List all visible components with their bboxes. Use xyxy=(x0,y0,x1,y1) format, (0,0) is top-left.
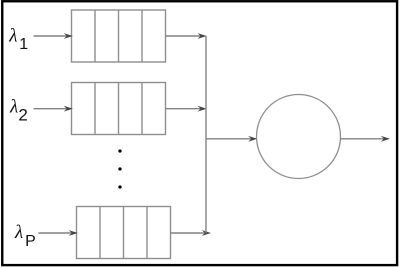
wire Q1 output xyxy=(166,33,207,39)
vertical ellipsis dots xyxy=(118,149,121,188)
queue Q1 xyxy=(72,10,166,62)
label lambda1 xyxy=(8,26,28,53)
svg-text:1: 1 xyxy=(19,36,28,53)
svg-text:λ: λ xyxy=(14,222,23,243)
arrow server output xyxy=(341,136,391,142)
arrow bus to server xyxy=(206,136,257,142)
wire Q2 output xyxy=(166,106,207,112)
queue Q3 xyxy=(77,207,171,259)
svg-text:P: P xyxy=(25,233,36,250)
server circle xyxy=(257,95,341,179)
label lambda2 xyxy=(9,97,28,125)
label lambdaP xyxy=(14,222,36,250)
wire bus vertical xyxy=(205,36,207,233)
arrow inputP xyxy=(39,230,78,236)
svg-text:λ: λ xyxy=(8,26,17,47)
svg-text:λ: λ xyxy=(9,97,18,118)
arrow input2 xyxy=(34,106,73,112)
queue Q2 xyxy=(72,83,166,135)
arrow input1 xyxy=(34,33,73,39)
wire Q3 output xyxy=(171,230,212,236)
svg-text:2: 2 xyxy=(18,105,27,124)
